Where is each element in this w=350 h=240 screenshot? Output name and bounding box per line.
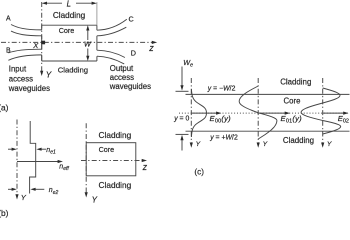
svg-text:W: W	[84, 40, 92, 49]
svg-text:Core: Core	[284, 96, 301, 105]
svg-text:L: L	[67, 0, 71, 8]
MMI multimode core rectangle bottom edge	[42, 60, 97, 62]
svg-text:Y: Y	[327, 141, 332, 148]
W_e top arrow	[180, 67, 183, 91]
n_e2 dimension arrows	[8, 188, 44, 191]
output waveguide C upper curve	[97, 19, 127, 30]
svg-text:y = −W/2: y = −W/2	[207, 86, 236, 93]
output waveguide D lower curve	[97, 56, 124, 64]
svg-text:z: z	[148, 43, 154, 53]
svg-text:Y: Y	[196, 141, 201, 148]
n_eff axis arrowhead	[58, 160, 63, 163]
(b) right vertical dash-dot axis	[85, 123, 87, 194]
svg-text:ne2: ne2	[49, 187, 59, 196]
W_e bottom tick	[176, 133, 189, 135]
svg-text:Cladding: Cladding	[99, 130, 132, 140]
E02 field arrow	[323, 112, 349, 115]
(b) z axis arrowhead	[142, 159, 147, 162]
svg-text:z: z	[142, 162, 148, 172]
(b) right horizontal dash-dot z axis	[81, 160, 144, 162]
svg-text:Core: Core	[59, 26, 75, 35]
svg-text:ne1: ne1	[46, 147, 56, 156]
mode E01 curve	[239, 86, 277, 139]
svg-text:Y: Y	[92, 195, 98, 204]
svg-text:D: D	[131, 49, 136, 58]
z axis arrowhead (a)	[152, 41, 157, 44]
(b) left: vertical dash-dot Y axis	[16, 120, 18, 197]
W_e bottom arrow	[180, 135, 183, 151]
svg-text:waveguides: waveguides	[109, 82, 151, 91]
E00 field arrow	[191, 112, 221, 115]
svg-text:E02: E02	[338, 114, 349, 125]
input waveguide A upper curve	[11, 25, 42, 30]
mode axis 1 (dash-dot)	[190, 78, 192, 145]
svg-text:Cladding: Cladding	[53, 11, 86, 20]
L dimension line	[42, 2, 97, 5]
svg-text:Core: Core	[99, 145, 115, 154]
mode E00 curve	[191, 89, 206, 137]
mode E02 curve	[301, 88, 341, 134]
svg-text:E01(y): E01(y)	[281, 114, 303, 125]
core boundary line y=-W/2	[186, 93, 350, 95]
n_e1 dimension arrows	[8, 148, 46, 151]
svg-text:y = 0: y = 0	[173, 115, 189, 122]
mode axis 3 arrowhead	[321, 143, 324, 148]
svg-text:Cladding: Cladding	[99, 180, 132, 190]
svg-text:waveguides: waveguides	[8, 84, 50, 93]
output waveguide D upper curve	[97, 50, 125, 57]
output waveguide C lower curve	[97, 27, 126, 36]
svg-text:Y: Y	[263, 141, 268, 148]
mode axis 2 (dash-dot)	[257, 78, 259, 145]
svg-text:Cladding: Cladding	[280, 77, 311, 86]
svg-text:Y: Y	[21, 193, 27, 202]
Y axis arrowhead (a)	[40, 71, 43, 76]
L extension line (right, dashed)	[96, 2, 98, 25]
svg-text:E00(y): E00(y)	[210, 114, 232, 125]
E01 field arrow	[258, 112, 290, 115]
svg-text:Y: Y	[46, 71, 52, 80]
svg-text:Cladding: Cladding	[58, 66, 88, 75]
(b) horizontal n_eff axis	[17, 161, 61, 163]
svg-text:(a): (a)	[0, 103, 9, 113]
svg-text:A: A	[6, 16, 11, 23]
svg-text:C: C	[129, 15, 134, 24]
core boundary line y=+W/2	[186, 130, 350, 132]
horizontal dash-dot z axis of (a)	[1, 41, 154, 43]
MMI multimode core rectangle top edge	[42, 24, 97, 26]
mode axis 1 arrowhead	[190, 143, 193, 148]
MMI rectangle right edge segments	[96, 25, 98, 61]
svg-text:access: access	[9, 75, 33, 84]
svg-text:y = +W/2: y = +W/2	[209, 134, 238, 141]
svg-text:We: We	[183, 58, 193, 69]
mode axis 2 arrowhead	[257, 143, 260, 148]
W dimension double arrow	[86, 25, 89, 61]
vertical dash-dot Y axis of (a)	[41, 2, 43, 74]
svg-text:Input: Input	[9, 65, 27, 74]
(b) left Y axis arrowhead	[15, 194, 18, 199]
svg-text:(c): (c)	[194, 168, 204, 177]
MMI rectangle left edge segments	[41, 25, 43, 61]
svg-text:Output: Output	[110, 64, 134, 73]
W_e top tick	[176, 90, 189, 92]
input waveguide A lower curve	[11, 31, 42, 36]
(b) right Y axis arrowhead	[85, 192, 88, 197]
input waveguide B upper curve	[8, 49, 41, 53]
svg-text:(b): (b)	[0, 208, 9, 218]
input waveguide B lower curve	[8, 55, 41, 60]
(b) refractive index step profile	[30, 121, 36, 194]
(b) right: equivalent slab rectangle	[86, 143, 136, 176]
svg-text:B: B	[6, 47, 11, 54]
svg-text:X: X	[32, 41, 39, 50]
svg-text:Cladding: Cladding	[283, 136, 314, 145]
mode axis 3 (dash-dot)	[322, 78, 324, 145]
origin marker black square	[41, 41, 45, 45]
y=0 dotted line	[179, 112, 348, 114]
svg-text:neff: neff	[59, 163, 69, 172]
